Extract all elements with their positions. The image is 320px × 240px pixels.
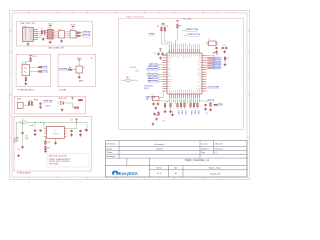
svg-text:VCC_3V3: VCC_3V3 [183,18,191,20]
svg-text:VCC5: VCC5 [32,56,37,58]
svg-text:R12: R12 [48,148,51,150]
svg-text:U3: U3 [59,29,61,31]
svg-text:USB CONNECTOR: USB CONNECTOR [48,48,64,50]
svg-text:C8: C8 [163,121,165,123]
svg-text:C3: C3 [154,53,156,55]
svg-text:3V3: 3V3 [216,54,219,56]
svg-text:SBUS_IN: SBUS_IN [212,58,219,60]
svg-text:PWR_KEY: PWR_KEY [44,100,54,102]
svg-text:Page:: Page: [201,152,206,154]
svg-text:Q1: Q1 [83,68,85,70]
svg-text:8: 8 [217,12,218,14]
svg-text:R6: R6 [179,25,181,27]
svg-text:USB_DM: USB_DM [83,32,91,34]
svg-text:SWO: SWO [219,104,224,106]
svg-text:C9: C9 [206,113,208,115]
svg-text:C11: C11 [18,149,21,151]
svg-text:POWER INDICATOR: POWER INDICATOR [18,88,35,91]
svg-text:LED1: LED1 [22,63,26,65]
svg-text:FB1: FB1 [126,77,129,79]
svg-text:SPI1_MISO: SPI1_MISO [148,69,159,71]
svg-text:U4: U4 [70,29,72,31]
svg-text:UART3_RX: UART3_RX [148,80,159,83]
svg-text:BUZZER: BUZZER [60,89,68,91]
svg-text:VCC_3V3: VCC_3V3 [130,67,136,69]
svg-text:SW1: SW1 [17,99,21,101]
svg-text:5: 5 [130,12,131,14]
svg-text:RGT6: RGT6 [144,88,149,90]
svg-text:R2: R2 [166,102,168,104]
svg-text:R11: R11 [48,142,51,144]
svg-text:USB TYPE-C 16P: USB TYPE-C 16P [21,23,36,25]
svg-text:FSW: 1.4MHz: FSW: 1.4MHz [49,164,59,166]
svg-text:2: 2 [43,178,44,180]
svg-text:PWM3: PWM3 [184,110,186,115]
svg-text:Board1: Board1 [156,147,162,150]
svg-text:Create:: Create: [107,151,114,154]
svg-text:1: 1 [14,178,15,180]
svg-text:SWCLK_TCK: SWCLK_TCK [189,34,201,36]
svg-text:INPUT: 6.0V-8.4V 2S LIPO: INPUT: 6.0V-8.4V 2S LIPO [49,155,68,157]
svg-text:R7: R7 [227,58,229,60]
svg-text:Y2: Y2 [208,39,210,41]
svg-text:4: 4 [101,12,102,14]
svg-text:7: 7 [188,12,189,14]
svg-text:Reviewed:: Reviewed: [107,156,116,158]
svg-text:2025-07-14: 2025-07-14 [215,148,223,150]
svg-text:600R: 600R [136,71,139,73]
svg-text:MP2315: MP2315 [53,134,59,136]
svg-text:C10: C10 [25,136,28,138]
svg-text:Y1: Y1 [152,95,154,97]
svg-text:Version: Version [156,167,162,169]
svg-text:1/1: 1/1 [215,152,217,154]
svg-text:USB_DP: USB_DP [83,35,91,37]
svg-text:R4: R4 [157,26,159,28]
svg-text:VCC5: VCC5 [70,25,75,27]
svg-text:I2C1_SDA: I2C1_SDA [210,86,220,89]
svg-text:U2: U2 [168,51,170,53]
svg-text:EasyEDA: EasyEDA [119,171,138,176]
svg-text:Board:: Board: [107,147,113,150]
svg-text:1: 1 [14,12,15,14]
svg-text:USB1: USB1 [23,26,27,28]
svg-text:PWM1: PWM1 [177,110,179,115]
svg-text:10uH: 10uH [30,125,34,127]
svg-text:3: 3 [72,178,73,180]
svg-text:OUTPUT: 3.3V LDO FOR MCU: OUTPUT: 3.3V LDO FOR MCU [49,161,70,163]
svg-text:VCC5: VCC5 [77,58,82,60]
svg-text:R8: R8 [80,100,82,102]
svg-text:VCC5: VCC5 [48,24,53,26]
svg-text:6: 6 [159,12,160,14]
svg-text:PWM4: PWM4 [190,110,192,115]
svg-text:PWM5: PWM5 [194,110,196,115]
svg-text:easyeda.com: easyeda.com [210,174,221,176]
svg-text:MAIN CONTROLLER: MAIN CONTROLLER [127,16,145,19]
svg-text:R5: R5 [167,26,169,28]
svg-text:PWM6: PWM6 [197,110,199,115]
svg-text:4: 4 [101,178,102,180]
svg-text:SWDIO_TMS: SWDIO_TMS [187,29,199,31]
svg-text:2: 2 [43,12,44,14]
svg-text:Page 1 - Total 1: Page 1 - Total 1 [209,166,222,169]
svg-text:C4: C4 [165,54,167,56]
svg-text:Flight_Controller_v1: Flight_Controller_v1 [185,158,210,162]
svg-text:Schematic:: Schematic: [107,143,117,146]
svg-text:U5: U5 [54,131,56,133]
svg-text:BOOT0: BOOT0 [208,100,214,102]
svg-text:2025-07-05: 2025-07-05 [215,144,223,146]
svg-text:7: 7 [188,178,189,180]
svg-text:L1: L1 [23,119,25,121]
svg-text:R9: R9 [69,67,71,69]
svg-text:Size: Size [174,167,178,169]
svg-text:8: 8 [217,178,218,180]
svg-text:A4: A4 [175,172,177,175]
svg-text:5: 5 [130,178,131,180]
svg-text:PWR_LED: PWR_LED [59,98,68,100]
svg-text:LED2: LED2 [43,71,48,73]
svg-text:Schematic1: Schematic1 [155,143,165,146]
svg-text:PWM2: PWM2 [181,110,183,115]
svg-text:NRST: NRST [150,34,155,36]
svg-text:BEEP: BEEP [79,81,83,83]
svg-text:22uF: 22uF [25,138,29,140]
svg-text:5V REGULATOR: 5V REGULATOR [17,172,31,175]
svg-text:LED1: LED1 [43,66,48,68]
svg-text:100nF: 100nF [46,106,51,108]
svg-text:V1.0: V1.0 [157,173,161,175]
svg-text:BUZZER: BUZZER [60,69,68,71]
svg-text:D1: D1 [41,28,43,30]
svg-text:3: 3 [72,12,73,14]
svg-text:6: 6 [159,178,160,180]
